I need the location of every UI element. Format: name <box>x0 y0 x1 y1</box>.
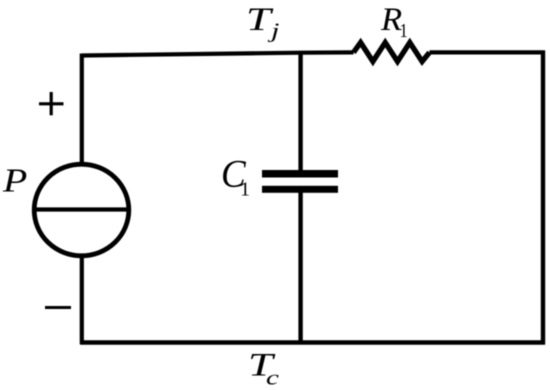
svg-text:c: c <box>266 365 280 389</box>
svg-text:P: P <box>2 162 27 200</box>
svg-text:1: 1 <box>400 20 408 42</box>
svg-text:1: 1 <box>240 179 250 201</box>
